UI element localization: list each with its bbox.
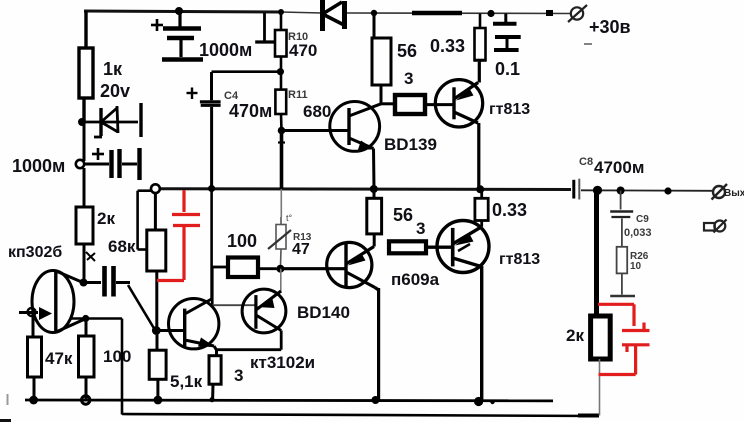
svg-text:100: 100: [227, 231, 257, 251]
svg-text:3: 3: [404, 69, 413, 88]
svg-text:гт813: гт813: [489, 101, 530, 118]
wire diagonal cap to base node: [128, 285, 155, 330]
node gnd гт813: [474, 397, 483, 406]
svg-text:10: 10: [630, 261, 642, 272]
node mid rail гт813: [476, 185, 484, 193]
svg-text:68к: 68к: [108, 237, 136, 256]
svg-text:20v: 20v: [100, 81, 130, 101]
node source: [82, 315, 89, 322]
node output thick: [593, 186, 602, 195]
transistor Q7 гт813 lower: [437, 221, 489, 401]
cross mark: [86, 252, 95, 261]
resistor R4 100: [79, 319, 95, 401]
svg-text:0.1: 0.1: [495, 59, 520, 79]
resistor R14 0.33 upper: [474, 14, 487, 63]
wire top rail right faded: [281, 12, 571, 14]
transistor Q6 п609а: [284, 242, 379, 400]
wire bottom thick part: [578, 414, 599, 418]
svg-text:C9: C9: [636, 214, 649, 225]
diode VD2 top: [323, 0, 345, 31]
node top rail at R10: [278, 9, 284, 15]
wire source node: [71, 317, 122, 320]
resistor R17 0.33 lower: [475, 189, 488, 226]
resistor R8 3 vertical: [209, 350, 221, 400]
node gnd 5,1к: [154, 396, 163, 405]
svg-text:0.33: 0.33: [492, 200, 527, 220]
capacitor C4 470м: [187, 72, 281, 189]
node gnd ring 100: [82, 396, 90, 404]
capacitor C3 coupling: [84, 266, 130, 297]
svg-text:1к: 1к: [103, 59, 123, 79]
terminal lower right: [704, 220, 727, 233]
wire output line: [581, 189, 712, 192]
svg-text:0,033: 0,033: [624, 227, 652, 239]
node output C9: [617, 187, 625, 195]
гт813 lower arrow: [455, 234, 474, 246]
wire base node down: [278, 131, 285, 190]
capacitor C5 0.1: [493, 14, 521, 51]
transistor Q1 кп302б: [19, 270, 86, 337]
resistor R10 470: [275, 12, 287, 72]
svg-text:56: 56: [393, 205, 413, 225]
node drain: [80, 279, 88, 287]
svg-text:R11: R11: [288, 89, 308, 101]
wire left column: [83, 122, 86, 207]
node R10 R11: [277, 68, 284, 75]
svg-text:BD139: BD139: [384, 135, 437, 154]
svg-text:1000м: 1000м: [12, 156, 65, 176]
artifact bottom edge: [0, 419, 11, 422]
kt3102 emitter arrow: [198, 338, 215, 348]
svg-text:кп302б: кп302б: [8, 244, 62, 261]
svg-text:2к: 2к: [566, 326, 584, 345]
bracket 68к left: [138, 191, 151, 250]
svg-text:470: 470: [289, 41, 317, 60]
capacitor C9 0,033: [610, 191, 633, 247]
ring input: [28, 308, 36, 316]
resistor R18 2к thick: [591, 316, 611, 359]
wire mid rail: [160, 187, 571, 191]
zener diode VD1: [84, 103, 141, 137]
wire ground rail: [25, 399, 553, 403]
artifact bottom left gray: [7, 394, 9, 405]
wire thick to 2к: [594, 190, 599, 316]
transistor Q3 BD140: [242, 289, 286, 333]
svg-text:п609а: п609а: [391, 270, 440, 289]
svg-text:56: 56: [397, 41, 417, 61]
resistor R2 2к: [76, 207, 93, 282]
resistor R7 5,1к: [149, 331, 166, 401]
transistor Q2 кт3102и: [156, 299, 219, 351]
capacitor C2 1000м horizontal: [84, 148, 140, 180]
node BD139 base: [278, 127, 286, 135]
node gnd 3: [209, 397, 214, 402]
п609а arrow: [348, 254, 366, 266]
svg-text:680: 680: [303, 102, 331, 121]
svg-text:BD140: BD140: [297, 303, 350, 322]
svg-text:100: 100: [103, 347, 131, 366]
resistor R15 56 lower: [367, 189, 382, 246]
capacitor C1 1000м top: [151, 11, 203, 60]
node bias: [276, 265, 284, 273]
svg-text:Вых: Вых: [724, 188, 744, 199]
svg-text:5,1к: 5,1к: [170, 372, 203, 391]
svg-text:470м: 470м: [229, 101, 272, 121]
svg-text:2к: 2к: [97, 209, 115, 228]
wire BD140 base lead: [212, 304, 256, 306]
thermistor R13: [276, 217, 286, 269]
svg-text:+30в: +30в: [589, 17, 631, 37]
terminal +30v: [568, 5, 587, 22]
resistor R12 3 upper horizontal: [395, 95, 453, 114]
svg-text:1000м: 1000м: [199, 40, 252, 60]
capacitor red C-a: [157, 190, 200, 281]
node gnd small: [490, 400, 494, 404]
wire feedback down: [122, 319, 598, 417]
R13 slash: [268, 230, 291, 249]
node kt3102 base: [152, 326, 161, 335]
wire collector column kt3102: [210, 189, 213, 306]
svg-text:C8: C8: [579, 156, 593, 168]
node ring 68к: [151, 184, 160, 193]
node ring at C2: [76, 160, 84, 168]
node top rail at C1: [175, 7, 183, 15]
resistor R26 10: [610, 247, 635, 296]
BD140 emitter arrow: [257, 299, 275, 308]
wire to R13 faded: [280, 189, 282, 217]
node top rail right of diode: [371, 10, 377, 16]
terminal output: [712, 184, 728, 200]
node zener: [78, 118, 86, 126]
гт813 lower arrow second: [458, 244, 470, 251]
gate arrowhead: [39, 307, 52, 320]
artifact dash under +30в: [584, 43, 592, 45]
resistor R5 68к: [147, 193, 166, 330]
wire BD140 collector return: [217, 331, 282, 350]
node gnd 47к: [29, 396, 38, 405]
node top rail square: [546, 10, 553, 16]
гт813 upper arrow: [456, 89, 474, 101]
resistor R16 3 lower: [389, 241, 453, 253]
svg-text:4700м: 4700м: [594, 158, 644, 177]
resistor R3 47к: [28, 337, 42, 400]
svg-text:t°: t°: [286, 213, 293, 223]
wire bias node down faded: [280, 269, 282, 293]
svg-text:3: 3: [234, 366, 243, 385]
node top rail at 0.1 cap: [487, 10, 494, 17]
transistor Q5 гт813 upper: [435, 62, 482, 189]
svg-text:0.33: 0.33: [430, 36, 465, 56]
wire top rail: [84, 11, 281, 12]
resistor R11 680: [275, 72, 286, 131]
resistor R6 100 horizontal: [212, 258, 276, 278]
capacitor C8 4700м: [574, 179, 580, 200]
resistor R9 56 upper: [372, 13, 394, 104]
node mid rail BD139 emitter: [370, 185, 378, 193]
wire top rail thick overdraw: [412, 11, 462, 15]
capacitor red C-b: [598, 304, 650, 374]
svg-text:47: 47: [292, 241, 310, 258]
wire stub near R10: [255, 13, 275, 42]
resistor R1 1к: [79, 11, 93, 122]
BD139 emitter arrow: [358, 141, 375, 150]
wire 2к bottom faded: [599, 359, 601, 416]
node output square: [664, 187, 671, 194]
transistor Q4 BD139: [282, 102, 382, 190]
svg-text:47к: 47к: [45, 349, 73, 368]
svg-text:3: 3: [416, 219, 425, 238]
node gnd п609а: [372, 396, 380, 404]
svg-text:гт813: гт813: [499, 251, 540, 268]
svg-text:кт3102и: кт3102и: [250, 353, 315, 372]
node mid rail C4: [208, 185, 215, 192]
